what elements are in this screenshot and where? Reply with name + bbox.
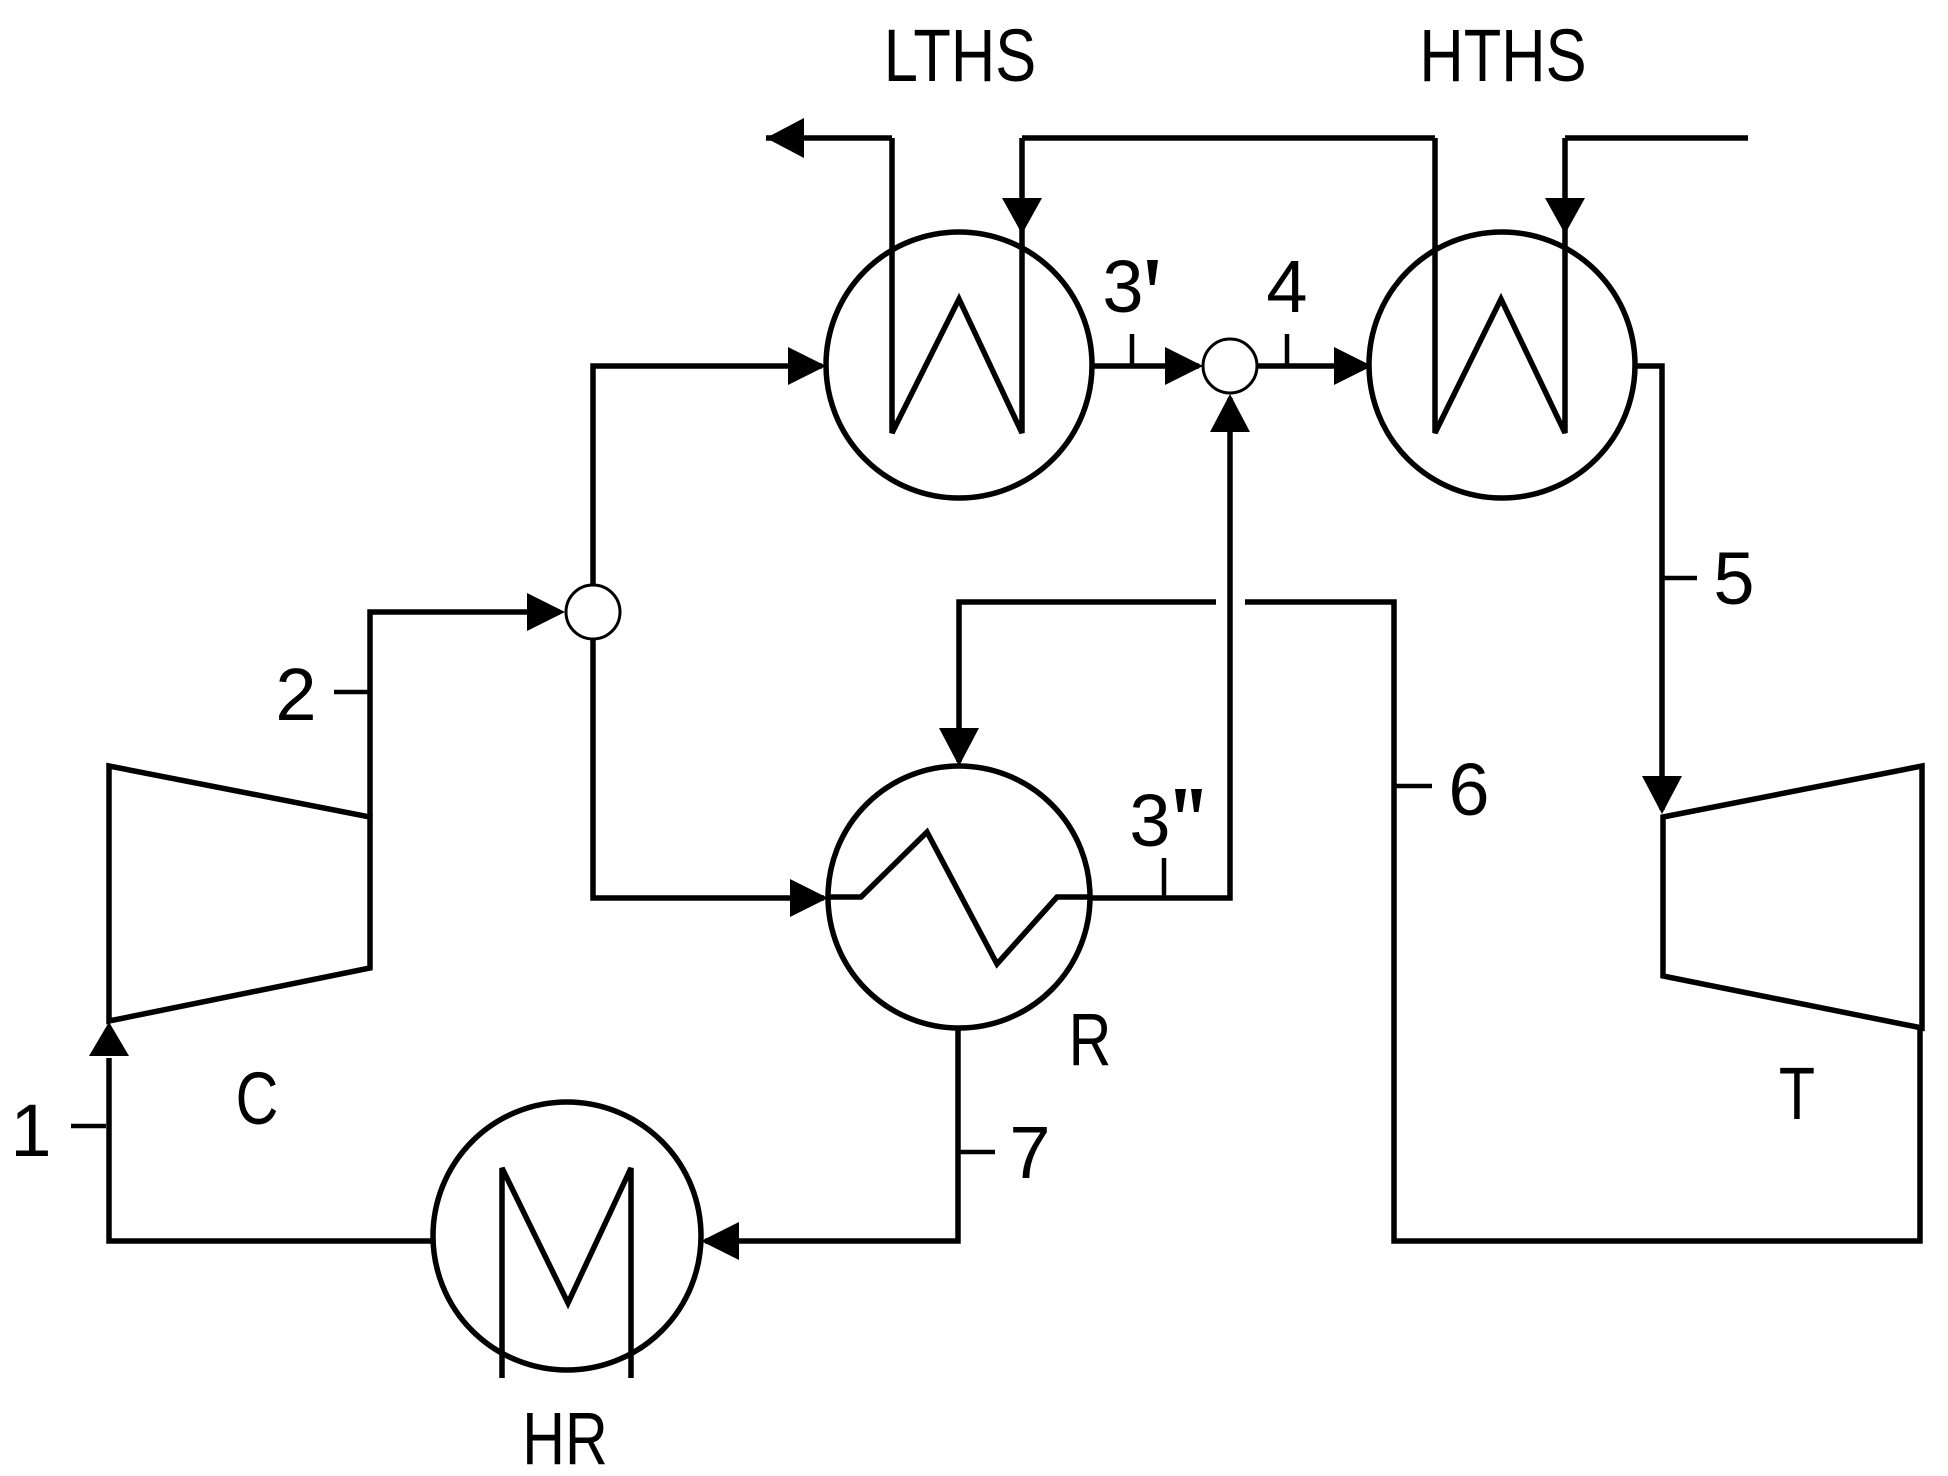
tick 7 [958,1150,995,1155]
arrow into turbine [1642,776,1682,814]
arrow into node B from below [1210,394,1250,432]
wire 1 HR to compressor [109,1058,433,1241]
tick 4 [1285,334,1290,366]
node A flow split [566,585,620,639]
tick 2 [334,690,368,695]
node B flow mixer [1203,339,1257,393]
wire 5 HTHS to turbine [1635,366,1662,810]
svg-text:R: R [1069,999,1112,1082]
wire 4 node B to HTHS [1257,363,1368,369]
recuperator R [828,766,1090,1028]
wire node A to LTHS [593,366,822,585]
tick 6 [1394,784,1432,789]
svg-text:HTHS: HTHS [1419,15,1586,98]
wire 6 continued after crossing gap [959,602,1216,762]
svg-text:HR: HR [522,1398,608,1476]
wire 7 R to HR [705,1028,958,1241]
turbine T [1663,766,1922,1028]
svg-text:3: 3 [1102,245,1143,328]
heat exchanger LTHS [826,138,1092,498]
heat exchanger HTHS [1369,138,1635,498]
wire 6 turbine to R hot inlet [1245,602,1920,1241]
svg-text:C: C [236,1058,279,1141]
wire 3' LTHS to node B [1092,363,1199,369]
tick 3' [1130,334,1135,366]
arrow into compressor [89,1022,129,1056]
tick 5 [1662,576,1697,581]
tick 3'' [1162,858,1167,898]
svg-text:2: 2 [275,653,316,736]
wire node A to R cold inlet [593,639,824,898]
wire LTHS coolant outlet [766,135,892,141]
svg-text:7: 7 [1009,1111,1050,1194]
arrow into R top [939,728,979,766]
compressor C [109,766,370,1021]
svg-text:6: 6 [1448,748,1489,831]
wire 3'' R to node B [1090,398,1230,898]
arrow LTHS coolant inlet [1002,198,1042,234]
wire 2 compressor to node A [370,612,560,817]
wire HTHS-LTHS coolant link [1022,135,1435,141]
arrow HTHS coolant inlet [1545,198,1585,234]
wire HTHS coolant supply [1565,135,1748,141]
arrow into HR [701,1222,739,1260]
svg-text:T: T [1779,1053,1815,1136]
svg-text:LTHS: LTHS [884,15,1036,98]
tick 1 [71,1124,106,1129]
svg-text:4: 4 [1266,245,1307,328]
arrow into R [790,879,828,917]
svg-text:3: 3 [1129,779,1170,862]
arrow into node B [1165,347,1203,385]
svg-text:5: 5 [1713,537,1754,620]
arrow into LTHS [788,347,826,385]
arrow LTHS coolant outlet [766,118,804,158]
arrow into HTHS [1334,347,1372,385]
svg-text:1: 1 [10,1089,51,1172]
heat rejector HR [433,1102,701,1378]
arrow into node A [527,593,565,631]
